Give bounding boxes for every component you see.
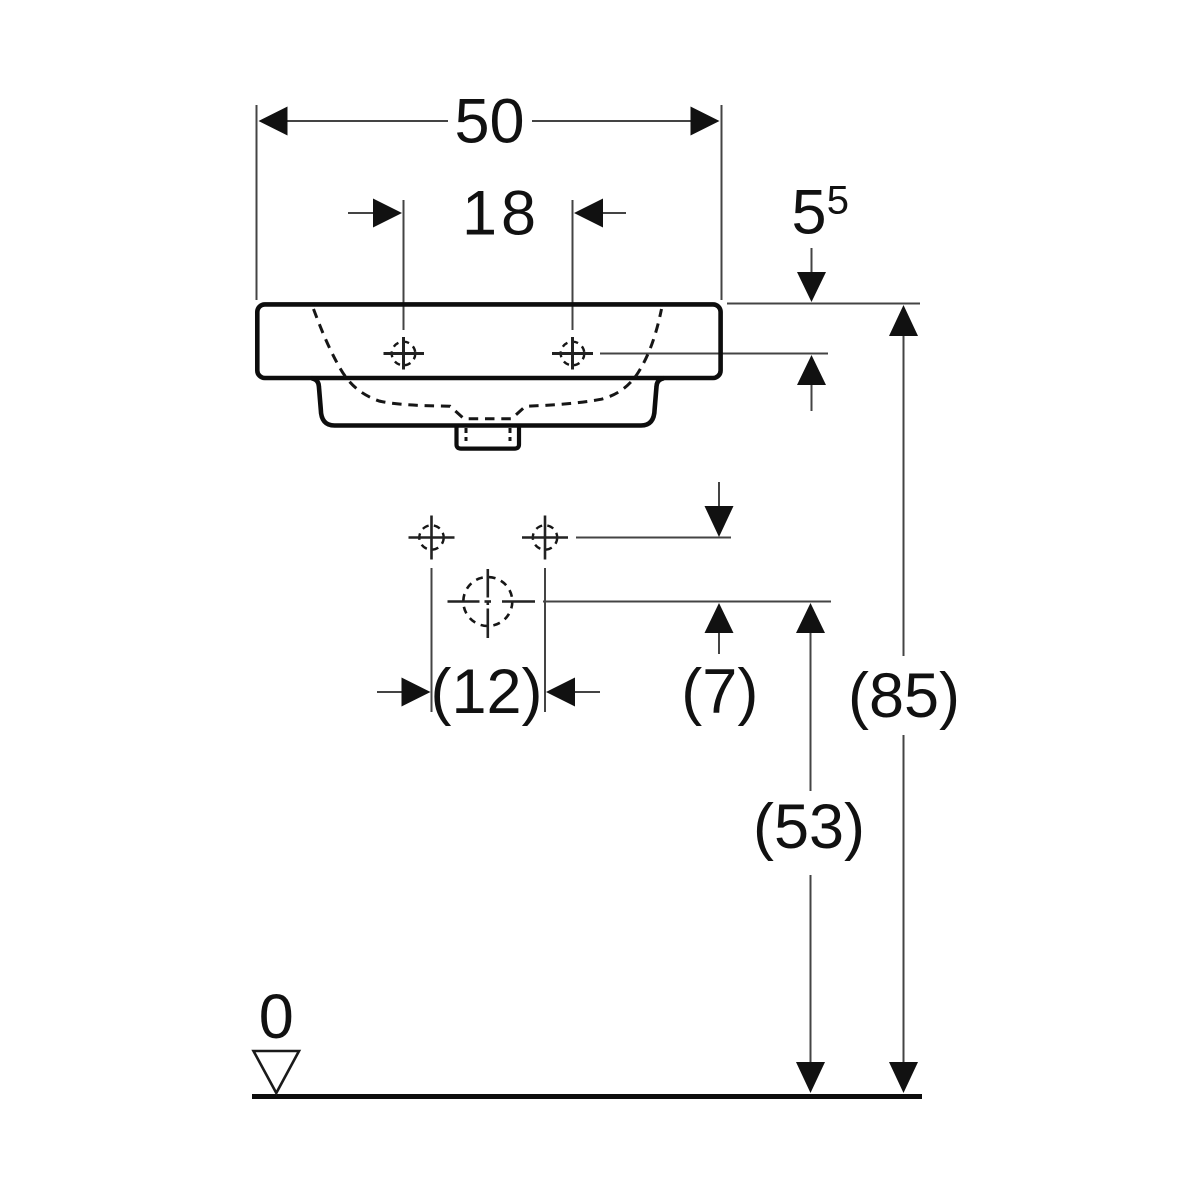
svg-text:(7): (7) (681, 657, 758, 727)
svg-text:5: 5 (827, 179, 849, 223)
svg-text:5: 5 (792, 177, 827, 247)
svg-text:(85): (85) (848, 661, 960, 731)
svg-text:(53): (53) (753, 792, 865, 862)
svg-text:0: 0 (259, 982, 294, 1052)
svg-text:(12): (12) (430, 657, 542, 727)
svg-text:50: 50 (454, 87, 524, 157)
svg-text:18: 18 (462, 179, 540, 249)
